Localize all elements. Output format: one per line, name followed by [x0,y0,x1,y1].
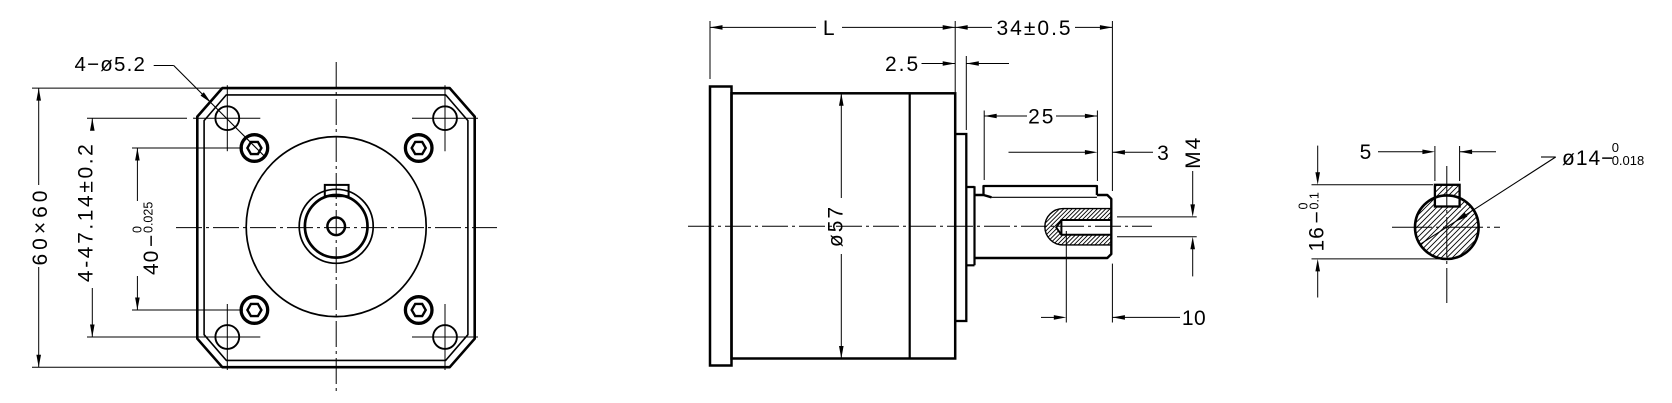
shaft section circle dia 14 [1415,195,1479,259]
hole bottom-left horizontal centerline [194,336,260,338]
pilot boss circle [246,137,426,317]
L left extension line [709,21,711,79]
25 left extension line [983,111,985,181]
svg-text:0.018: 0.018 [1612,153,1645,168]
mounting hole 5.2 bottom-left [215,325,239,349]
side view horizontal centerline [688,225,1152,227]
40 bottom extension line [132,309,243,311]
16 dim tail upper [1317,146,1319,173]
2.5 right extension line [965,56,967,130]
svg-text:40: 40 [140,250,163,275]
svg-text:16: 16 [1306,226,1329,251]
leader horizontal segment [1541,156,1556,158]
10 dim tail left [1041,316,1055,318]
dia57 dimension line upper [840,93,842,198]
10 left extension line [1065,231,1067,323]
output shaft dia 14 [975,195,1112,258]
5 dim tail right [1460,151,1496,153]
40 dimension line upper [136,148,138,201]
60x60 bottom extension line [32,366,221,368]
M4 lower extension line [1117,236,1197,238]
25 dimension line right [1056,115,1097,117]
mounting hole 5.2 top-left [215,106,239,130]
34 dimension line right [1075,26,1112,28]
40 -0.025 text [131,202,163,275]
svg-text:60×60: 60×60 [29,187,52,266]
svg-text:−: − [1306,211,1329,223]
svg-text:−: − [140,235,163,247]
34 dimension line left [955,26,992,28]
16 -0.1 text [1296,192,1328,251]
3 dim tail left [1009,151,1087,153]
mounting hole 5.2 top-right [433,106,457,130]
16 top extension line [1312,184,1434,186]
motor body dia 57 [732,93,956,358]
hole bottom-left vertical centerline [226,304,228,370]
hole top-right horizontal centerline [412,117,478,119]
5 left extension line [1434,146,1436,181]
svg-text:0.1: 0.1 [1307,192,1321,209]
shaft circle dia 14 [305,195,368,258]
5 right extension line [1459,146,1461,181]
25 dimension line left [984,115,1027,117]
hole top-left horizontal centerline [194,117,260,119]
svg-text:ø57: ø57 [825,205,848,247]
front boss 2.5 [955,134,966,321]
leader diagonal segment [1420,157,1556,244]
leader arrowhead [1456,213,1468,222]
47.14 dimension line lower [91,288,93,337]
47.14 dimension line upper [91,118,93,122]
leader arrowhead [201,92,212,103]
5 dim tail left [1378,151,1424,153]
shaft collar circle [299,189,373,263]
svg-text:4−ø5.2: 4−ø5.2 [75,53,147,76]
front face extension line [954,21,956,92]
section horizontal centerline [1392,226,1500,228]
section vertical centerline [1446,166,1448,303]
svg-text:25: 25 [1028,106,1055,129]
key on shaft (front view) [325,185,349,196]
L dimension line left [710,26,816,28]
socket screw bottom-left [241,297,268,324]
keyway floor line [992,196,1097,198]
rear end plate [710,87,732,366]
mounting hole 5.2 bottom-right [433,325,457,349]
section hatching [1000,190,1234,260]
svg-text:3: 3 [1157,142,1169,165]
3 dim tail right [1112,151,1153,153]
section outline of tapped hole [1045,209,1111,245]
hole top-left vertical centerline [226,85,228,151]
flange outer outline 60x60 [197,88,474,367]
svg-text:34±0.5: 34±0.5 [997,17,1073,40]
47.14 top extension line [87,117,187,119]
key 5x5 section [1435,185,1460,207]
60x60 dimension line upper [38,88,40,185]
shaft collar [966,186,974,265]
svg-text:M4: M4 [1182,136,1205,169]
svg-text:0.025: 0.025 [142,202,156,233]
hole top-right vertical centerline [444,85,446,151]
svg-text:L: L [823,17,835,40]
47.14 bottom extension line [87,336,195,338]
M4 dim tail upper [1192,171,1194,205]
dia57 dimension line lower [840,254,842,359]
key on shaft (side view) [984,186,1097,195]
leader horizontal segment [154,65,174,67]
tapped hole M4 [1056,220,1111,235]
25 right extension line [1096,111,1098,182]
center tapped hole [327,218,345,236]
left view vertical centerline [335,62,337,394]
hole bottom-right vertical centerline [444,304,446,370]
left view horizontal centerline [176,227,497,229]
svg-text:5: 5 [1360,141,1372,164]
socket screw bottom-right [405,297,432,324]
16 bottom extension line [1312,258,1448,260]
cross-section hatching [1325,165,1628,275]
L dimension line right [842,26,955,28]
hole bottom-right horizontal centerline [412,336,478,338]
svg-text:2.5: 2.5 [885,53,920,76]
2.5 dim tail left [922,63,956,65]
40 top extension line [132,147,243,149]
M4 dim tail lower [1192,248,1194,276]
40 dimension line lower [136,276,138,310]
svg-text:4-47.14±0.2: 4-47.14±0.2 [74,142,97,283]
socket screw top-left [241,135,268,162]
dia14 -0.018 text [1562,140,1644,170]
thread end line [1060,220,1062,235]
2.5 dim tail right [966,63,1009,65]
10 dim tail right [1112,316,1180,318]
body joint line [909,93,911,358]
60x60 top extension line [32,87,221,89]
16 dim tail lower [1317,270,1319,298]
flange inner outline [204,95,468,361]
M4 upper extension line [1117,216,1197,218]
socket screw top-right [405,135,432,162]
shaft end extension line upper [1111,21,1113,191]
leader diagonal segment [174,66,266,158]
svg-text:10: 10 [1182,307,1206,330]
60x60 dimension line lower [38,267,40,367]
svg-text:ø14−: ø14− [1562,147,1614,170]
10 right extension line [1111,264,1113,323]
